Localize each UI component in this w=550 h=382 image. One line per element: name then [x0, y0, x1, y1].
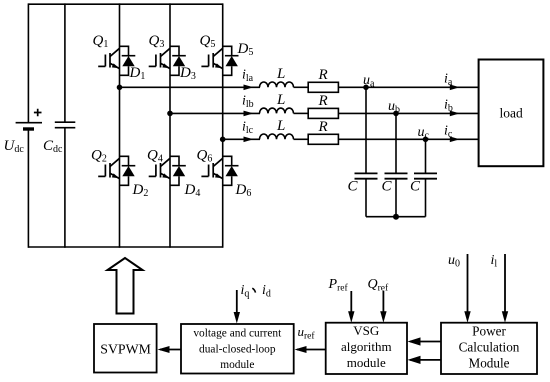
- wire: phase c between L and R: [294, 138, 309, 140]
- wire: inverter leg 3: [222, 3, 224, 247]
- arrow: load current i_a: [450, 85, 460, 91]
- wire: filter cap branch c lower: [425, 179, 427, 217]
- svg-text:dual-closed-loop: dual-closed-loop: [199, 344, 276, 356]
- arrow: load current i_c: [450, 137, 460, 143]
- inductor L phase c: [260, 134, 294, 139]
- node: phase-a junction on leg 1: [117, 85, 123, 91]
- wire: DC bus top rail: [28, 3, 222, 5]
- wire: phase c to load: [338, 138, 478, 140]
- svg-text:L: L: [276, 92, 285, 108]
- transistor Q1: [98, 48, 119, 68]
- block SVPWM: [94, 324, 157, 373]
- svg-text:VSG: VSG: [353, 323, 379, 338]
- svg-text:R: R: [318, 119, 328, 135]
- arrow: inductor current i_lb: [244, 111, 254, 117]
- transistor Q5: [201, 48, 222, 68]
- inductor L phase b: [260, 108, 294, 113]
- wire: filter cap branch c upper: [425, 139, 427, 173]
- wire: phase b between L and R: [294, 112, 309, 114]
- wire: arrow voltage module to SVPWM: [158, 346, 182, 353]
- diode D1: [120, 46, 136, 75]
- wire: filter neutral bus: [366, 216, 426, 218]
- node u_a: [363, 85, 369, 91]
- svg-text:R: R: [318, 93, 328, 109]
- diode D3: [170, 46, 186, 75]
- inductor L phase a: [260, 82, 294, 87]
- diode D5: [223, 46, 239, 75]
- svg-text:L: L: [276, 118, 285, 134]
- diode D2: [120, 156, 136, 185]
- wire: arrow Power Calculation to VSG (lower): [408, 356, 442, 364]
- svg-text:Power: Power: [472, 324, 506, 339]
- wire: arrow VSG to voltage module (u_ref): [295, 346, 326, 353]
- wire: phase b to load: [338, 112, 478, 114]
- wire: filter cap branch a lower: [365, 179, 367, 217]
- wire: arrow i_q i_d into voltage module: [234, 290, 240, 324]
- capacitor C phase b: [385, 173, 408, 178]
- wire: filter cap branch b upper: [395, 113, 397, 173]
- node u_c: [423, 137, 429, 143]
- node: phase-c junction on leg 3: [220, 137, 226, 143]
- wire: inverter leg 1: [119, 3, 121, 247]
- arrow: load current i_b: [450, 111, 460, 117]
- wire: arrow u_0 into Power Calculation module: [464, 254, 470, 323]
- wire: source branch lower segment: [27, 129, 29, 248]
- svg-text:module: module: [347, 355, 386, 370]
- svg-text:SVPWM: SVPWM: [100, 342, 151, 357]
- svg-text:Module: Module: [468, 356, 509, 371]
- arrow: inductor current i_la: [244, 85, 254, 91]
- transistor Q4: [149, 158, 170, 178]
- svg-text:algorithm: algorithm: [341, 339, 392, 354]
- svg-text:C: C: [382, 179, 393, 195]
- load box: [479, 60, 544, 167]
- node: neutral junction: [393, 214, 399, 220]
- svg-text:voltage and current: voltage and current: [193, 328, 282, 340]
- wire: inverter leg 2: [169, 3, 171, 247]
- block Power Calculation Module: [441, 323, 537, 374]
- capacitor C_dc: [55, 122, 76, 128]
- resistor R phase b: [308, 108, 338, 118]
- diode D4: [170, 156, 186, 185]
- battery U_dc: [16, 109, 42, 129]
- wire: phase a between L and R: [294, 86, 309, 88]
- resistor R phase a: [308, 82, 338, 92]
- diode D6: [223, 156, 239, 185]
- transistor Q6: [201, 158, 222, 178]
- wire: C_dc branch lower segment: [64, 128, 66, 248]
- svg-text:L: L: [276, 66, 285, 82]
- wire: source branch upper segment: [27, 3, 29, 122]
- wire: arrow Power Calculation to VSG (upper): [408, 337, 442, 345]
- block voltage and current dual-closed-loop module: [181, 324, 294, 374]
- svg-text:load: load: [500, 105, 523, 120]
- wire: arrow i_l into Power Calculation module: [502, 254, 508, 323]
- svg-text:C: C: [410, 179, 421, 195]
- wire: filter cap branch a upper: [365, 87, 367, 173]
- wire: phase c line to inductor: [223, 138, 260, 140]
- label voltage and current dual-closed-loop module: [193, 328, 282, 372]
- arrow: inductor current i_lc: [244, 137, 254, 143]
- svg-text:module: module: [220, 359, 254, 371]
- transistor Q2: [98, 158, 119, 178]
- wire: phase a line to inductor: [120, 86, 261, 88]
- svg-text:C: C: [348, 179, 359, 195]
- capacitor C phase c: [414, 173, 437, 178]
- svg-text:Calculation: Calculation: [459, 340, 520, 355]
- svg-text:R: R: [318, 67, 328, 83]
- wire: arrow Q_ref into VSG module: [380, 291, 386, 323]
- resistor R phase c: [308, 134, 338, 144]
- node: phase-b junction on leg 2: [167, 111, 173, 117]
- wire: arrow P_ref into VSG module: [348, 291, 354, 323]
- arrow: PWM gate drive (hollow block arrow to inverter): [108, 258, 143, 314]
- block VSG algorithm module: [326, 323, 407, 374]
- transistor Q3: [149, 48, 170, 68]
- label Power Calculation Module: [459, 324, 520, 371]
- wire: C_dc branch upper segment: [64, 3, 66, 122]
- wire: phase b line to inductor: [170, 112, 260, 114]
- capacitor C phase a: [355, 173, 378, 178]
- label i_q, i_d: [241, 283, 271, 300]
- wire: DC bus bottom rail: [28, 246, 222, 248]
- wire: phase a to load: [338, 86, 478, 88]
- node u_b: [393, 111, 399, 117]
- wire: filter cap branch b lower: [395, 179, 397, 217]
- label VSG algorithm module: [341, 323, 392, 370]
